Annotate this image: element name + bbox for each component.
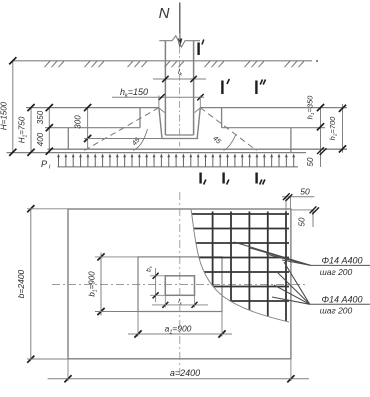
svg-text:300: 300 bbox=[74, 115, 83, 129]
svg-text:h1​=350: h1​=350 bbox=[306, 95, 316, 120]
dim a=2400 bbox=[48, 378, 309, 380]
column centerline bbox=[179, 33, 181, 147]
callout upper: F14 A400 шаг 200 bbox=[311, 264, 370, 266]
preparation layer bottom line bbox=[7, 152, 307, 154]
slab bottom line bbox=[48, 148, 348, 150]
svg-text:b=2400: b=2400 bbox=[16, 269, 26, 298]
svg-text:P: P bbox=[41, 159, 47, 169]
socket chamfer right bbox=[195, 108, 201, 113]
dim H1=750 bbox=[30, 108, 32, 153]
column bottom in socket bbox=[165, 134, 193, 136]
plan horizontal centerline bbox=[52, 284, 308, 286]
load spread dashed line left bbox=[83, 108, 159, 152]
soil pressure arrows row bbox=[58, 157, 60, 167]
svg-text:h2​=700: h2​=700 bbox=[328, 116, 338, 141]
svg-text:N: N bbox=[159, 5, 170, 22]
socket bottom level extension bbox=[84, 138, 162, 140]
load spread dashed line right bbox=[200, 108, 256, 151]
svg-text:50: 50 bbox=[306, 157, 315, 166]
svg-text:50: 50 bbox=[300, 187, 310, 197]
svg-text:350: 350 bbox=[36, 110, 45, 124]
dim b1=900 bbox=[100, 253, 102, 316]
step level line left (ext + surface) bbox=[45, 127, 140, 129]
plan vertical centerline bbox=[179, 192, 181, 374]
svg-text:400: 400 bbox=[36, 132, 45, 146]
footing top surface line (left, incl. extension) bbox=[26, 107, 159, 109]
column break symbol bbox=[159, 36, 200, 47]
svg-text:Φ14 A400: Φ14 A400 bbox=[321, 295, 362, 305]
dim chain 350/400 bbox=[48, 108, 50, 153]
svg-text:a=2400: a=2400 bbox=[170, 368, 200, 378]
slab left edge bbox=[67, 128, 69, 150]
section mark I' top bbox=[197, 43, 199, 56]
column rectangle in plan bbox=[165, 276, 194, 296]
plan outer footing rectangle bbox=[68, 209, 291, 359]
svg-text:Φ14 A400: Φ14 A400 bbox=[321, 256, 362, 266]
callout lower: F14 A400 шаг 200 bbox=[310, 303, 370, 305]
dim 50 right side bbox=[291, 209, 314, 211]
socket chamfer left bbox=[159, 108, 165, 113]
svg-text:50: 50 bbox=[298, 217, 307, 226]
reinforcement mesh bars bbox=[185, 212, 289, 323]
svg-text:шаг 200: шаг 200 bbox=[320, 267, 353, 277]
svg-text:H=1500: H=1500 bbox=[0, 101, 9, 130]
dim H=1500 bbox=[12, 61, 14, 153]
column left edge bbox=[164, 41, 166, 135]
dim h1=350 and 50 chain bbox=[320, 108, 322, 167]
ground line bbox=[13, 60, 313, 62]
pedestal left edge bbox=[139, 108, 141, 128]
arrow tails line bbox=[58, 166, 299, 168]
section mark I' mid bbox=[221, 81, 223, 95]
socket left wall bbox=[159, 108, 162, 139]
mesh boundary curve bbox=[191, 209, 289, 322]
section mark I'' mid bbox=[255, 81, 257, 95]
footing top surface line (right, incl. extension) bbox=[200, 107, 347, 109]
section marks bottom row bbox=[199, 173, 201, 184]
dim 50 top right bbox=[285, 197, 287, 212]
angle arc right with 45 label bbox=[224, 134, 237, 151]
dim b=2400 bbox=[30, 209, 32, 360]
socket right wall bbox=[197, 108, 200, 139]
load arrow N bbox=[179, 3, 181, 41]
dim bk column height in plan bbox=[155, 268, 157, 302]
svg-text:шаг 200: шаг 200 bbox=[320, 306, 353, 316]
dim h2=700 bbox=[342, 104, 344, 153]
dim lk column width in plan bbox=[152, 304, 208, 306]
pedestal rectangle in plan bbox=[138, 257, 222, 312]
dim a1=900 bbox=[128, 333, 232, 335]
pedestal right edge bbox=[221, 108, 223, 128]
slab right edge bbox=[290, 128, 292, 153]
socket bottom bbox=[162, 138, 199, 140]
ground hatching bbox=[45, 61, 51, 67]
dim 300 socket depth bbox=[87, 108, 89, 149]
column right edge bbox=[193, 41, 195, 135]
angle arc left with 45 label bbox=[133, 129, 148, 151]
step level line right (surface + ext) bbox=[222, 127, 325, 129]
